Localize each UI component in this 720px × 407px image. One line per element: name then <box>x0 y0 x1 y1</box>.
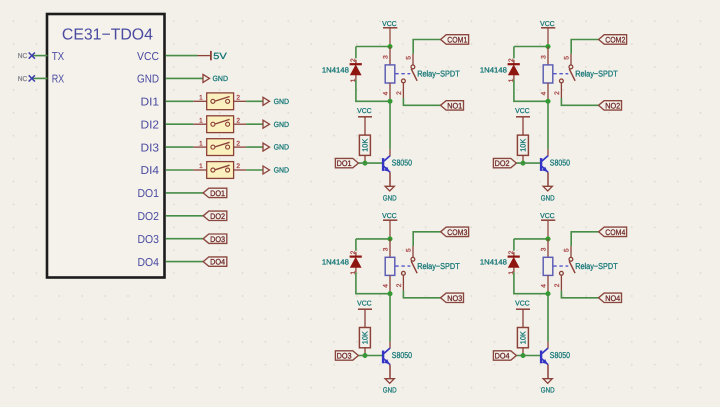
svg-text:DO1: DO1 <box>138 188 160 200</box>
transistor Q1 S8050 <box>382 156 390 173</box>
diode D2 1N4148 <box>508 60 520 80</box>
diode D4 1N4148 <box>508 252 520 272</box>
wire DI1 to switch <box>166 100 194 102</box>
svg-text:1N4148: 1N4148 <box>480 65 507 74</box>
svg-text:1: 1 <box>199 95 203 102</box>
switch SW4 pin 1 <box>193 169 206 171</box>
diode D1 1N4148 <box>350 60 362 80</box>
ground (circuit 4) <box>541 379 555 395</box>
svg-text:GND: GND <box>213 74 229 83</box>
power 5V <box>198 51 227 61</box>
wire COM2 <box>571 40 598 54</box>
label DO4 (IC side) <box>203 257 227 267</box>
svg-text:VCC: VCC <box>382 21 397 28</box>
switch SW4 pin 2 <box>234 169 247 171</box>
svg-text:1: 1 <box>199 163 203 170</box>
svg-text:VCC: VCC <box>382 213 397 220</box>
junction node base <box>521 161 526 166</box>
relay switch blade <box>411 69 417 81</box>
wire base <box>358 355 382 357</box>
relay switch K2 pin 2 <box>560 83 562 98</box>
relay coil K4 pin 3 <box>547 239 549 257</box>
wire NO4 <box>561 290 598 297</box>
wire diode anode to coil bottom <box>514 80 548 102</box>
svg-text:S8050: S8050 <box>392 350 412 360</box>
label COM1 <box>441 35 469 45</box>
label COM2 <box>599 35 627 45</box>
switch SW4 body <box>207 162 234 179</box>
svg-text:1N4148: 1N4148 <box>480 258 507 267</box>
svg-text:DO1: DO1 <box>210 189 225 198</box>
svg-text:2: 2 <box>554 91 561 95</box>
wire GND pin to GND label <box>166 77 203 79</box>
emitter wire to ground <box>547 365 549 379</box>
power VCC (base pull-up) <box>357 108 372 135</box>
wire DI4 to switch <box>166 169 194 171</box>
svg-text:DO1: DO1 <box>337 159 352 168</box>
power VCC (base pull-up) <box>515 108 530 135</box>
svg-text:2: 2 <box>236 163 240 170</box>
transistor Q3 S8050 <box>382 348 390 365</box>
wire diode branch upper <box>513 239 515 251</box>
svg-text:3: 3 <box>541 247 548 251</box>
label DO1 (IC side) <box>203 188 227 198</box>
collector pin <box>547 342 549 349</box>
relay switch K3 pin 5 <box>412 246 414 257</box>
relay switch K2 pin 5 <box>570 54 572 65</box>
svg-text:VCC: VCC <box>357 108 372 115</box>
svg-text:5: 5 <box>564 248 571 252</box>
svg-text:S8050: S8050 <box>392 158 412 168</box>
svg-text:3: 3 <box>383 247 390 251</box>
svg-text:COM4: COM4 <box>605 228 625 237</box>
relay coil K1 pin 3 <box>389 47 391 65</box>
switch SW2 body <box>207 116 234 133</box>
wire COM4 <box>571 232 598 246</box>
svg-text:10K: 10K <box>360 139 369 152</box>
relay coil K1 body <box>385 65 395 83</box>
wire NO3 <box>403 290 440 297</box>
wire switch to GND label <box>246 100 263 102</box>
pin TX (no connect) <box>18 51 65 63</box>
svg-text:4: 4 <box>541 91 548 95</box>
svg-text:GND: GND <box>541 386 555 395</box>
relay switch blade <box>411 261 417 273</box>
svg-text:2: 2 <box>236 117 240 124</box>
wire diode anode to coil bottom <box>356 272 390 294</box>
svg-text:DO2: DO2 <box>138 211 160 223</box>
emitter wire to ground <box>547 172 549 186</box>
power VCC (base pull-up) <box>515 300 530 327</box>
svg-text:5: 5 <box>406 248 413 252</box>
relay actuator dashed link <box>395 73 410 75</box>
svg-text:3: 3 <box>383 55 390 59</box>
svg-text:NC: NC <box>18 53 28 60</box>
svg-text:2: 2 <box>396 91 403 95</box>
wire COM1 <box>413 40 440 54</box>
ground label GND (SW1) <box>263 97 290 106</box>
svg-text:DO4: DO4 <box>495 352 510 361</box>
junction node VCC rail <box>388 44 393 49</box>
svg-text:1: 1 <box>199 140 203 147</box>
junction node base <box>521 353 526 358</box>
svg-text:CE31−TDO4: CE31−TDO4 <box>62 27 153 44</box>
resistor R3 10K <box>359 328 370 356</box>
svg-text:5: 5 <box>564 56 571 60</box>
svg-text:COM2: COM2 <box>605 36 625 45</box>
junction node VCC rail <box>546 237 551 242</box>
IC U1 CE31-TDO4 body <box>47 14 165 278</box>
junction node VCC rail <box>388 237 393 242</box>
relay coil K4 pin 4 <box>547 275 549 293</box>
svg-text:NO1: NO1 <box>447 102 462 111</box>
wire diode anode to coil bottom <box>356 80 390 102</box>
relay switch K4 pin 2 <box>560 275 562 290</box>
junction node coil bottom <box>388 291 393 296</box>
switch SW2 pin 2 <box>234 123 247 125</box>
wire VCC node to diode branch <box>356 238 390 240</box>
label NO2 <box>599 101 622 111</box>
svg-text:VCC: VCC <box>137 51 159 63</box>
svg-text:DO3: DO3 <box>138 234 160 246</box>
svg-text:DO3: DO3 <box>337 352 352 361</box>
svg-text:2: 2 <box>508 250 515 254</box>
svg-text:DO4: DO4 <box>138 257 160 269</box>
ground (circuit 2) <box>541 186 555 202</box>
relay switch K4 pin 5 <box>570 246 572 257</box>
relay switch NO contact <box>402 79 406 83</box>
svg-text:DI4: DI4 <box>141 165 160 177</box>
svg-text:2: 2 <box>396 283 403 287</box>
svg-text:GND: GND <box>541 193 555 202</box>
power VCC (circuit 2 top) <box>540 21 555 47</box>
switch SW3 pin 2 <box>234 146 247 148</box>
svg-text:10K: 10K <box>360 331 369 344</box>
svg-text:3: 3 <box>541 55 548 59</box>
wire diode anode to coil bottom <box>514 272 548 294</box>
svg-text:S8050: S8050 <box>550 350 570 360</box>
wire VCC node to diode branch <box>514 46 548 48</box>
svg-text:GND: GND <box>274 97 290 106</box>
label DO3 (drive input) <box>335 351 358 361</box>
wire diode branch upper <box>355 47 357 59</box>
switch SW1 pin 1 <box>193 100 206 102</box>
ground label GND (SW2) <box>263 120 290 129</box>
svg-text:GND: GND <box>274 166 290 175</box>
relay switch K1 pin 2 <box>402 83 404 98</box>
wire DI3 to switch <box>166 146 194 148</box>
wire DO2 pin to label <box>166 215 203 217</box>
junction node VCC rail <box>546 44 551 49</box>
svg-text:VCC: VCC <box>357 300 372 307</box>
svg-text:COM3: COM3 <box>447 228 467 237</box>
relay coil K2 pin 3 <box>547 47 549 65</box>
svg-text:NC: NC <box>18 76 28 83</box>
transistor Q2 S8050 <box>540 156 548 173</box>
svg-text:5V: 5V <box>213 51 227 61</box>
svg-text:DO2: DO2 <box>210 212 225 221</box>
svg-text:Relay−SPDT: Relay−SPDT <box>417 261 460 271</box>
label NO4 <box>599 293 622 303</box>
label DO2 (IC side) <box>203 211 227 221</box>
relay switch blade <box>569 261 575 273</box>
relay switch blade <box>569 69 575 81</box>
svg-text:2: 2 <box>554 283 561 287</box>
wire NO2 <box>561 98 598 105</box>
wire base <box>516 355 540 357</box>
svg-text:DO3: DO3 <box>210 235 225 244</box>
wire switch to GND label <box>246 146 263 148</box>
relay coil K4 body <box>543 257 553 275</box>
label COM3 <box>441 227 469 237</box>
relay switch K3 pin 2 <box>402 275 404 290</box>
svg-text:GND: GND <box>383 193 397 202</box>
label DO2 (drive input) <box>493 158 516 168</box>
relay actuator dashed link <box>553 73 568 75</box>
svg-text:TX: TX <box>52 51 65 63</box>
collector pin <box>547 149 549 156</box>
wire base <box>516 162 540 164</box>
power VCC (circuit 4 top) <box>540 213 555 239</box>
junction node coil bottom <box>388 99 393 104</box>
svg-text:4: 4 <box>383 284 390 288</box>
wire coil bottom to collector <box>389 101 391 149</box>
switch SW1 body <box>207 93 234 110</box>
wire VCC node to diode branch <box>356 46 390 48</box>
pin RX (no connect) <box>18 74 65 86</box>
switch SW1 pin 2 <box>234 100 247 102</box>
switch SW3 body <box>207 139 234 156</box>
wire coil bottom to collector <box>389 294 391 342</box>
wire diode branch upper <box>355 239 357 251</box>
switch SW3 pin 1 <box>193 146 206 148</box>
power VCC (circuit 1 top) <box>382 21 397 47</box>
svg-text:Relay−SPDT: Relay−SPDT <box>417 68 460 78</box>
power VCC (circuit 3 top) <box>382 213 397 239</box>
switch SW2 pin 1 <box>193 123 206 125</box>
junction node coil bottom <box>546 291 551 296</box>
svg-text:10K: 10K <box>518 139 527 152</box>
wire switch to GND label <box>246 123 263 125</box>
wire switch to GND label <box>246 169 263 171</box>
svg-text:GND: GND <box>274 143 290 152</box>
svg-text:DI3: DI3 <box>141 142 160 154</box>
svg-text:5: 5 <box>406 56 413 60</box>
collector pin <box>389 342 391 349</box>
relay coil K2 pin 4 <box>547 83 549 101</box>
svg-text:GND: GND <box>383 386 397 395</box>
wire coil bottom to collector <box>547 101 549 149</box>
relay switch common contact <box>411 65 415 69</box>
junction node coil bottom <box>546 99 551 104</box>
relay switch NO contact <box>402 271 406 275</box>
label DO1 (drive input) <box>335 158 358 168</box>
relay switch K1 pin 5 <box>412 54 414 65</box>
svg-text:2: 2 <box>350 58 357 62</box>
svg-text:COM1: COM1 <box>447 36 467 45</box>
svg-text:4: 4 <box>383 91 390 95</box>
svg-text:2: 2 <box>236 140 240 147</box>
transistor Q4 S8050 <box>540 348 548 365</box>
relay switch NO contact <box>560 271 564 275</box>
svg-text:GND: GND <box>274 120 290 129</box>
wire DO3 pin to label <box>166 238 203 240</box>
label DO4 (drive input) <box>493 351 516 361</box>
svg-text:10K: 10K <box>518 331 527 344</box>
svg-text:DO4: DO4 <box>210 258 225 267</box>
svg-text:2: 2 <box>350 250 357 254</box>
svg-text:NO2: NO2 <box>605 102 620 111</box>
svg-text:2: 2 <box>508 58 515 62</box>
emitter wire to ground <box>389 172 391 186</box>
wire NO1 <box>403 98 440 105</box>
relay coil K3 body <box>385 257 395 275</box>
svg-text:VCC: VCC <box>515 108 530 115</box>
relay coil K3 pin 4 <box>389 275 391 293</box>
collector pin <box>389 149 391 156</box>
label NO3 <box>441 293 464 303</box>
svg-text:1: 1 <box>199 117 203 124</box>
ground label GND (SW4) <box>263 166 290 175</box>
svg-text:S8050: S8050 <box>550 158 570 168</box>
wire VCC node to diode branch <box>514 238 548 240</box>
relay actuator dashed link <box>395 265 410 267</box>
relay coil K3 pin 3 <box>389 239 391 257</box>
relay coil K2 body <box>543 65 553 83</box>
relay coil K1 pin 4 <box>389 83 391 101</box>
wire VCC pin to 5V <box>166 55 198 57</box>
svg-text:1N4148: 1N4148 <box>322 258 349 267</box>
power VCC (base pull-up) <box>357 300 372 327</box>
ground label GND (IC) <box>203 74 229 83</box>
svg-text:Relay−SPDT: Relay−SPDT <box>575 68 618 78</box>
junction node base <box>363 161 368 166</box>
label COM4 <box>599 227 627 237</box>
svg-text:DI1: DI1 <box>141 97 160 109</box>
resistor R4 10K <box>517 328 528 356</box>
label DO3 (IC side) <box>203 234 227 244</box>
relay switch common contact <box>569 65 573 69</box>
svg-text:VCC: VCC <box>515 300 530 307</box>
wire DO1 pin to label <box>166 192 203 194</box>
svg-text:2: 2 <box>236 95 240 102</box>
svg-text:GND: GND <box>137 74 159 86</box>
svg-text:Relay−SPDT: Relay−SPDT <box>575 261 618 271</box>
svg-text:NO3: NO3 <box>447 294 462 303</box>
svg-text:NO4: NO4 <box>605 294 620 303</box>
svg-text:4: 4 <box>541 284 548 288</box>
svg-text:DI2: DI2 <box>141 119 160 131</box>
ground label GND (SW3) <box>263 143 290 152</box>
diode D3 1N4148 <box>350 252 362 272</box>
emitter wire to ground <box>389 365 391 379</box>
label NO1 <box>441 101 464 111</box>
ground (circuit 3) <box>383 379 397 395</box>
wire diode branch upper <box>513 47 515 59</box>
ground (circuit 1) <box>383 186 397 202</box>
wire coil bottom to collector <box>547 294 549 342</box>
wire DI2 to switch <box>166 123 194 125</box>
wire DO4 pin to label <box>166 261 203 263</box>
wire base <box>358 162 382 164</box>
resistor R1 10K <box>359 135 370 163</box>
relay switch NO contact <box>560 79 564 83</box>
svg-text:VCC: VCC <box>540 213 555 220</box>
junction node base <box>363 353 368 358</box>
svg-text:RX: RX <box>52 74 65 86</box>
svg-text:DO2: DO2 <box>495 159 510 168</box>
svg-text:1N4148: 1N4148 <box>322 65 349 74</box>
wire COM3 <box>413 232 440 246</box>
relay switch common contact <box>569 257 573 261</box>
resistor R2 10K <box>517 135 528 163</box>
svg-text:VCC: VCC <box>540 21 555 28</box>
relay actuator dashed link <box>553 265 568 267</box>
relay switch common contact <box>411 257 415 261</box>
